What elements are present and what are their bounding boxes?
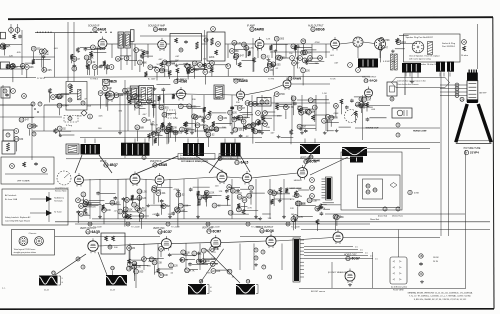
- component: [234, 53, 239, 58]
- svg-text:V13: V13: [104, 164, 109, 167]
- svg-text:10K: 10K: [164, 275, 169, 277]
- component: [305, 59, 307, 60]
- component: [14, 129, 19, 134]
- wire: [339, 126, 351, 128]
- diag wire blob6: [310, 157, 348, 175]
- wire: [354, 96, 369, 98]
- left boxes band2 bottom: [3, 130, 14, 141]
- svg-text:(Includes cabinet mounting: (Includes cabinet mounting: [180, 154, 203, 157]
- wire: [14, 68, 24, 70]
- component: [279, 199, 281, 201]
- label VERT AMP: [207, 229, 211, 233]
- svg-text:6CG7: 6CG7: [310, 160, 319, 164]
- vert mult tube: [298, 168, 308, 178]
- wire: [305, 49, 316, 51]
- component: [43, 55, 45, 56]
- wire: [252, 131, 254, 144]
- component: [305, 129, 307, 130]
- component: [228, 110, 233, 115]
- wires band2 right: [355, 105, 390, 107]
- svg-text:1K: 1K: [230, 50, 233, 53]
- tube pix if: [130, 174, 140, 184]
- svg-text:HORIZ OUTPUT: HORIZ OUTPUT: [256, 227, 274, 229]
- wire: [166, 112, 176, 114]
- svg-text:4BZ6: 4BZ6: [109, 80, 117, 84]
- wires: [357, 47, 359, 58]
- wire: [276, 42, 278, 51]
- component: [102, 208, 107, 213]
- wire: [381, 43, 383, 51]
- wire y117 left: [0, 116, 62, 118]
- wire: [313, 99, 329, 101]
- component: [243, 125, 246, 130]
- component: [139, 213, 144, 218]
- component: [308, 98, 313, 103]
- svg-text:V17: V17: [86, 231, 91, 234]
- wire V1 down: [97, 48, 99, 75]
- component: [261, 54, 266, 59]
- component: [293, 215, 298, 220]
- wire: [217, 204, 231, 206]
- svg-text:.047: .047: [383, 48, 388, 50]
- component: [306, 62, 308, 64]
- long wire y105: [0, 104, 33, 106]
- wire: [160, 252, 162, 257]
- wire: [197, 194, 199, 206]
- wire: [94, 70, 96, 76]
- svg-text:10K: 10K: [45, 54, 49, 56]
- wire: [154, 258, 164, 260]
- component: [206, 64, 211, 69]
- svg-text:1M: 1M: [143, 211, 146, 213]
- component: [238, 115, 243, 120]
- component: [148, 65, 153, 70]
- CRT base pins: [469, 70, 470, 73]
- wire: [12, 69, 14, 82]
- tube V 1st video IF: [106, 91, 115, 100]
- svg-text:4.7K: 4.7K: [289, 107, 294, 109]
- wire: [251, 192, 265, 194]
- svg-text:6AU6: 6AU6: [98, 28, 107, 32]
- wire: [183, 254, 195, 256]
- component: [366, 118, 368, 119]
- component: [185, 268, 190, 273]
- wire above box: [67, 22, 69, 82]
- svg-text:12K: 12K: [268, 218, 272, 220]
- svg-text:12K: 12K: [9, 56, 13, 58]
- wire: [308, 57, 321, 59]
- svg-text:Cord Only With Type Shown: Cord Only With Type Shown: [5, 220, 30, 223]
- component: [140, 54, 143, 59]
- svg-text:1.5: 1.5: [360, 250, 363, 252]
- component: [128, 262, 133, 267]
- wire: [139, 66, 141, 73]
- component: [161, 199, 163, 200]
- wire: [162, 126, 164, 132]
- wire: [164, 60, 178, 62]
- wire: [257, 130, 270, 132]
- svg-text:6DQ6: 6DQ6: [266, 229, 275, 233]
- wire: [273, 43, 288, 45]
- component: [138, 60, 143, 65]
- component: [212, 122, 215, 127]
- component: [316, 219, 319, 224]
- svg-text:1.5K: 1.5K: [211, 258, 216, 260]
- section line under xfmrs: [66, 158, 355, 160]
- component: [110, 200, 115, 205]
- component: [177, 189, 179, 191]
- wire: [340, 102, 342, 114]
- component: [258, 120, 261, 125]
- IF can box C: [214, 85, 224, 99]
- component: [210, 61, 215, 66]
- wire: [294, 48, 296, 56]
- wire: [363, 103, 365, 109]
- component: [184, 129, 187, 134]
- bubbles col 398: [396, 123, 400, 127]
- svg-text:.001: .001: [157, 190, 162, 192]
- component: [169, 122, 171, 123]
- component: [134, 48, 139, 53]
- component: [166, 61, 171, 66]
- svg-text:Parts list for this chassis: Parts list for this chassis: [397, 83, 418, 86]
- component: [92, 65, 97, 70]
- component: [236, 207, 241, 212]
- component: [231, 106, 233, 107]
- wire: [233, 46, 235, 58]
- wire: [144, 55, 153, 57]
- component: [53, 128, 56, 133]
- component: [157, 213, 159, 214]
- component: [291, 44, 296, 49]
- component: [395, 38, 398, 43]
- svg-text:120: 120: [298, 108, 303, 111]
- wire: [87, 49, 104, 51]
- svg-text:V20: V20: [260, 230, 265, 233]
- component: [152, 188, 157, 193]
- component: [201, 259, 206, 264]
- svg-text:H: H: [311, 179, 313, 182]
- wire: [252, 128, 254, 133]
- component: [197, 195, 202, 200]
- wire: [301, 205, 316, 207]
- svg-text:+|: +|: [393, 265, 396, 269]
- border top rule: [8, 17, 493, 19]
- component: [152, 186, 157, 191]
- wire: [43, 58, 45, 71]
- wires sound if: [140, 35, 207, 37]
- svg-text:2A: 2A: [461, 98, 464, 101]
- component: [336, 129, 338, 131]
- component: [324, 131, 326, 133]
- diag wire blob5: [303, 154, 311, 170]
- wire: [25, 62, 35, 64]
- component: [203, 125, 208, 130]
- wire: [158, 133, 160, 146]
- wire: [153, 106, 155, 118]
- label 4BS8: [153, 27, 157, 31]
- svg-text:1K: 1K: [153, 261, 156, 264]
- wire: [63, 134, 75, 136]
- svg-text:1M: 1M: [315, 63, 318, 65]
- wire: [262, 213, 271, 215]
- component: [258, 130, 260, 131]
- coil in info box: [428, 42, 433, 55]
- wire: [241, 205, 248, 207]
- component: [184, 122, 187, 127]
- wire: [201, 262, 218, 264]
- svg-text:1B: 1B: [420, 255, 423, 258]
- wire: [195, 120, 197, 132]
- svg-text:1M: 1M: [191, 67, 194, 69]
- wire: [148, 104, 150, 117]
- osc coil box 1: [118, 32, 124, 48]
- component: [97, 191, 99, 192]
- tube V 3rd video IF: [237, 91, 245, 99]
- wire: [87, 68, 89, 75]
- svg-text:Speaker Plug Part No.489117: Speaker Plug Part No.489117: [406, 36, 434, 39]
- svg-text:HEIGHT: HEIGHT: [294, 180, 303, 182]
- svg-text:6AQ5: 6AQ5: [92, 230, 101, 234]
- component: [60, 134, 62, 136]
- svg-text:470K: 470K: [384, 40, 390, 42]
- component: [132, 261, 137, 266]
- component: [72, 66, 77, 71]
- svg-text:6DG6: 6DG6: [316, 28, 325, 32]
- wire: [87, 204, 101, 206]
- component: [151, 123, 153, 125]
- wire: [83, 206, 92, 208]
- antenna terminal dots: [37, 32, 38, 33]
- hv cage box: [341, 152, 402, 210]
- wire: [298, 216, 313, 218]
- wire: [203, 110, 205, 119]
- component: [105, 93, 110, 98]
- component: [294, 45, 297, 50]
- component: [297, 124, 302, 129]
- output xfmr black C: [447, 62, 454, 72]
- component: [301, 39, 306, 44]
- svg-text:10K: 10K: [89, 58, 94, 60]
- component: [31, 46, 36, 51]
- component: [147, 133, 150, 138]
- wire: [241, 210, 258, 212]
- svg-text:6CG7: 6CG7: [164, 230, 173, 234]
- wire: [153, 193, 155, 204]
- component: [123, 213, 128, 218]
- svg-text:PLUG VIEW: PLUG VIEW: [393, 289, 404, 291]
- focus inner box: [363, 179, 383, 199]
- svg-text:1.5K: 1.5K: [206, 273, 211, 275]
- component: [127, 96, 132, 101]
- wire: [273, 196, 275, 206]
- interlock box: [2, 189, 68, 225]
- component: [84, 200, 89, 205]
- component: [268, 190, 273, 195]
- wire: [135, 53, 137, 61]
- component: [333, 214, 338, 219]
- svg-text:6AW8: 6AW8: [239, 79, 248, 83]
- vertical x32: [31, 105, 33, 160]
- wire: [243, 125, 245, 132]
- wire: [167, 67, 169, 77]
- component: [233, 116, 235, 118]
- svg-text:12K: 12K: [266, 38, 270, 40]
- wire: [208, 195, 222, 197]
- component: [242, 42, 247, 47]
- wire coils down: [120, 48, 122, 70]
- component: [274, 36, 279, 41]
- wire y218.9: [92, 218, 260, 220]
- svg-text:4BQ7: 4BQ7: [110, 163, 119, 167]
- svg-text:68K: 68K: [296, 46, 301, 48]
- wire: [316, 222, 318, 231]
- wire: [272, 193, 290, 195]
- wire: [236, 59, 238, 65]
- component: [173, 130, 178, 135]
- diamond band2: [81, 110, 87, 116]
- svg-text:AC Interlock: AC Interlock: [5, 194, 17, 197]
- wire: [253, 60, 255, 71]
- component: [212, 203, 217, 208]
- component: [147, 204, 149, 206]
- svg-text:.047: .047: [167, 115, 172, 117]
- spare tube box: [12, 230, 55, 256]
- component: [232, 117, 237, 122]
- ratio det box: [207, 32, 225, 61]
- focus box: [358, 175, 401, 208]
- tuner input bubbles: [9, 28, 14, 33]
- component: [161, 204, 163, 205]
- component: [137, 101, 142, 106]
- bubble near coils: [109, 65, 114, 70]
- wire y103: [271, 102, 330, 104]
- wire y131: [32, 130, 212, 132]
- wire: [93, 51, 106, 53]
- component: [297, 57, 299, 59]
- svg-text:.005: .005: [138, 96, 143, 98]
- svg-text:1M: 1M: [154, 259, 157, 261]
- svg-text:HORIZ OSC: HORIZ OSC: [344, 255, 357, 257]
- component: [118, 209, 123, 214]
- svg-text:470K: 470K: [280, 94, 286, 96]
- component: [340, 99, 343, 104]
- component: [261, 115, 263, 116]
- svg-text:10K: 10K: [367, 100, 372, 102]
- label PIX IF 4BQ7: [104, 163, 108, 167]
- wire: [179, 210, 188, 212]
- svg-text:T, Ta, C7, TE, 21M55Ua, C-21B1: T, Ta, C7, TE, 21M55Ua, C-21B16U, U, L-a…: [409, 295, 471, 298]
- wire: [164, 65, 166, 77]
- wire: [302, 108, 313, 110]
- wire: [120, 55, 131, 57]
- component: [230, 188, 235, 193]
- component: [226, 64, 231, 69]
- svg-text:470K: 470K: [320, 209, 326, 211]
- component: [264, 68, 269, 73]
- wire: [88, 65, 90, 75]
- bubbles mid col: [32, 124, 36, 128]
- component: [305, 109, 310, 114]
- wire: [138, 194, 140, 204]
- svg-text:Safety Interlock. Replace AC: Safety Interlock. Replace AC: [5, 216, 31, 219]
- component: [196, 259, 201, 264]
- component: [238, 62, 241, 67]
- label 6AU6: [93, 27, 97, 31]
- wire: [227, 69, 229, 76]
- component: [134, 269, 139, 274]
- svg-text:12K: 12K: [174, 265, 179, 267]
- svg-text:6AL5: 6AL5: [241, 161, 249, 165]
- component: [172, 212, 174, 213]
- wire: [127, 87, 138, 89]
- component: [137, 196, 142, 201]
- component: [160, 62, 163, 67]
- wire: [166, 134, 168, 144]
- tuner box parts: [10, 164, 15, 169]
- wire: [105, 202, 117, 204]
- component: [169, 126, 172, 131]
- tube V1 RF amp: [98, 39, 107, 48]
- bubble x90: [88, 114, 93, 119]
- wire: [293, 101, 295, 115]
- wire: [138, 201, 140, 211]
- wire: [61, 93, 78, 95]
- component: [19, 117, 24, 122]
- component: [153, 105, 155, 106]
- component: [211, 269, 216, 274]
- bubbles between boxes: [204, 38, 208, 42]
- ground hv: [349, 283, 351, 285]
- component: [292, 61, 297, 66]
- component: [259, 217, 261, 219]
- wire: [183, 106, 201, 108]
- sound IF tube V2: [158, 40, 167, 49]
- yoke plug box: [390, 257, 407, 284]
- svg-text:.047: .047: [239, 56, 244, 58]
- wire: [197, 128, 199, 137]
- wire: [214, 127, 227, 129]
- component: [192, 61, 197, 66]
- svg-text:.005: .005: [139, 272, 144, 274]
- component: [142, 50, 145, 55]
- component: [322, 118, 327, 123]
- label video det: [288, 77, 292, 81]
- svg-text:GB TRP: GB TRP: [479, 93, 487, 95]
- wire: [307, 61, 325, 63]
- damper tube: [333, 232, 343, 242]
- info box top right: [404, 34, 461, 62]
- component: [247, 124, 252, 129]
- component: [152, 131, 154, 133]
- component: [32, 59, 35, 64]
- yoke1 bracket: [59, 275, 61, 277]
- wire: [247, 106, 249, 118]
- wire: [208, 129, 219, 131]
- wire: [302, 73, 304, 85]
- comb fan wires: [304, 246, 353, 248]
- svg-text:.005: .005: [96, 47, 101, 49]
- component: [198, 62, 203, 67]
- component: [232, 40, 237, 45]
- wire: [168, 133, 170, 144]
- svg-text:+|: +|: [393, 259, 396, 263]
- component: [51, 95, 56, 100]
- wire: [360, 106, 373, 108]
- svg-text:4.7K: 4.7K: [298, 217, 303, 219]
- socket V8: [375, 39, 386, 50]
- tube V 2nd video IF: [177, 90, 186, 99]
